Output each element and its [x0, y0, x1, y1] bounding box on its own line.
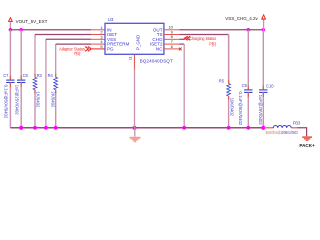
svg-text:VSS_CHG_4.2v: VSS_CHG_4.2v — [225, 16, 258, 21]
node junction at C7 top — [9, 28, 13, 32]
svg-text:2K/0402: 2K/0402 — [51, 91, 56, 108]
svg-text:1uF@25V/0402: 1uF@25V/0402 — [258, 95, 263, 126]
svg-text:Adapter Status: Adapter Status — [59, 46, 86, 51]
svg-text:C10: C10 — [266, 84, 274, 89]
capacitor C9 — [238, 30, 253, 128]
wire to PACK+ — [297, 128, 307, 136]
power flag VOUT_5V_EXT — [9, 18, 48, 30]
node junction at C8 top — [19, 28, 23, 32]
svg-text:U3: U3 — [108, 17, 114, 22]
wire VSS column — [45, 39, 47, 128]
svg-text:11: 11 — [129, 56, 133, 60]
svg-text:0.1uF@50V/0402: 0.1uF@50V/0402 — [238, 92, 243, 126]
svg-text:0.1uF@50V/0402: 0.1uF@50V/0402 — [4, 85, 9, 119]
svg-text:BQ24040DSQT: BQ24040DSQT — [140, 59, 173, 64]
pin numbers right — [168, 25, 173, 49]
node junction C10/flag — [262, 28, 266, 32]
resistor R5 — [219, 35, 235, 128]
svg-text:50mOhm@100MHz/0603: 50mOhm@100MHz/0603 — [266, 130, 298, 135]
wire TS to R5 — [179, 34, 228, 36]
svg-text:C9: C9 — [242, 83, 248, 88]
svg-text:PG: PG — [107, 47, 114, 52]
svg-text:R5: R5 — [219, 79, 225, 84]
svg-text:10K/0402: 10K/0402 — [230, 98, 235, 117]
capacitor C10 — [258, 30, 274, 128]
wire ISET2 down — [179, 43, 184, 45]
wire IC pad to bus — [134, 69, 136, 128]
wire ISET to R3 — [34, 35, 36, 78]
svg-text:C8: C8 — [23, 73, 29, 78]
svg-text:1uF@25V/0402: 1uF@25V/0402 — [15, 85, 20, 116]
node bus junctions — [19, 126, 265, 130]
svg-text:P_GND: P_GND — [135, 35, 140, 50]
svg-text:VOUT_5V_EXT: VOUT_5V_EXT — [16, 19, 48, 24]
capacitor C8 — [15, 30, 29, 128]
svg-text:FB3: FB3 — [293, 121, 301, 126]
svg-text:P[6]: P[6] — [74, 51, 80, 56]
off-page connector Adapter Status — [59, 46, 105, 56]
component pin segments (red) — [10, 74, 263, 100]
pin numbers left — [100, 25, 103, 49]
node junction C9 top — [247, 28, 251, 32]
no-connect X on pin 6 — [179, 48, 182, 51]
pin 11 pad stub — [134, 55, 136, 69]
wire CHG to flag — [179, 38, 185, 40]
svg-text:C7: C7 — [3, 73, 9, 78]
wire GND bus — [10, 127, 263, 129]
capacitor C7 — [3, 30, 14, 128]
svg-text:R3: R3 — [37, 73, 43, 78]
svg-text:P[6]: P[6] — [209, 41, 215, 46]
svg-text:R4: R4 — [48, 73, 54, 78]
IC U3 left pin stubs (pins 1-5) — [91, 30, 105, 44]
resistor R3 — [33, 73, 42, 128]
wire PRETERM to R4 — [55, 44, 57, 77]
svg-text:1K/0402: 1K/0402 — [36, 91, 41, 108]
svg-text:PACK+: PACK+ — [299, 143, 315, 148]
off-page connector Charging Status — [185, 36, 217, 46]
power flag PACK+ — [299, 136, 315, 148]
power flag VSS_CHG_4.2v — [225, 15, 265, 30]
resistor R4 — [48, 73, 58, 128]
wire OUT net — [179, 29, 263, 31]
ground symbol — [130, 128, 141, 143]
pin stubs right — [164, 30, 179, 49]
ferrite bead FB3 — [263, 121, 301, 136]
wire IN net top-left horizontal — [10, 29, 91, 31]
IC U3 body — [105, 17, 173, 64]
svg-text:NC: NC — [156, 47, 163, 52]
